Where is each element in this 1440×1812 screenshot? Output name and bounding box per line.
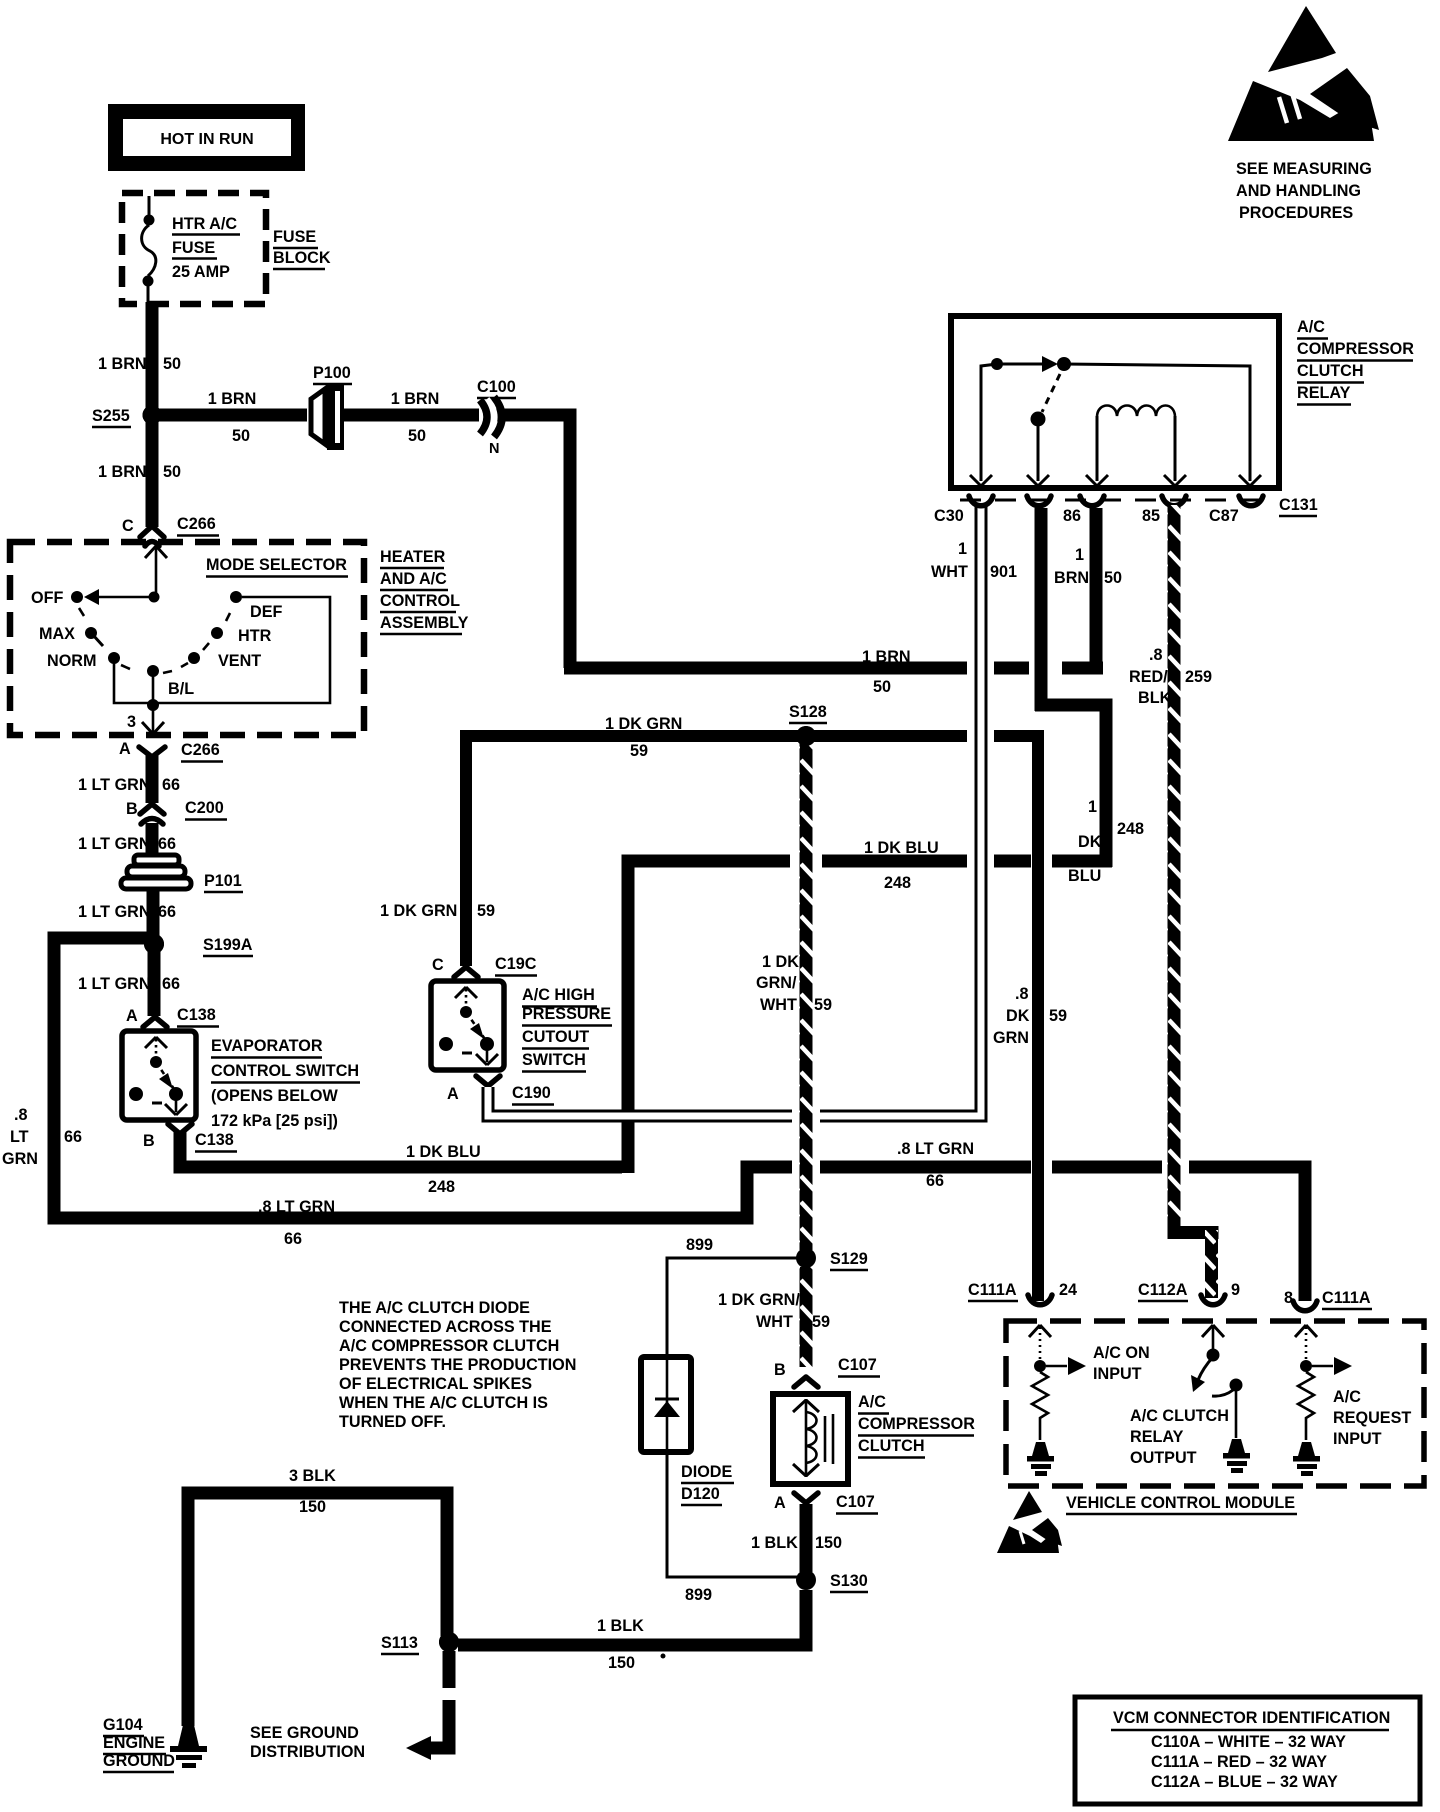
svg-text:150: 150 [608, 1654, 635, 1672]
svg-text:1 LT GRN: 1 LT GRN [78, 835, 151, 853]
svg-text:BRN: BRN [1054, 569, 1089, 587]
svg-text:59: 59 [630, 742, 648, 760]
wire S255 to C266, 1 BRN 50 [98, 415, 181, 527]
svg-text:899: 899 [685, 1586, 712, 1604]
svg-text:HTR: HTR [238, 627, 272, 645]
svg-text:B: B [774, 1361, 786, 1379]
svg-text:BLK: BLK [1138, 689, 1172, 707]
mode contact HTR [211, 627, 272, 645]
mode contact NORM [47, 652, 120, 670]
svg-text:1 BRN: 1 BRN [862, 648, 911, 666]
connector C138 pin A [126, 1006, 219, 1027]
clutch coil internals [793, 1399, 833, 1477]
svg-text:.8 LT GRN: .8 LT GRN [897, 1140, 974, 1158]
svg-text:EVAPORATOR: EVAPORATOR [211, 1037, 323, 1055]
svg-text:COMPRESSOR: COMPRESSOR [858, 1415, 975, 1433]
A/C high pressure cutout switch feed wire 1 DK GRN 59 [380, 715, 1038, 966]
svg-text:1 DK GRN: 1 DK GRN [380, 902, 457, 920]
svg-text:C: C [432, 956, 444, 974]
svg-text:50: 50 [873, 678, 891, 696]
svg-text:899: 899 [686, 1236, 713, 1254]
svg-text:C112A – BLUE – 32 WAY: C112A – BLUE – 32 WAY [1151, 1773, 1338, 1791]
wire S130 to S113, 1 BLK 150 [458, 1590, 806, 1672]
svg-text:901: 901 [990, 563, 1017, 581]
relay pin C87 [1209, 496, 1263, 525]
svg-text:66: 66 [284, 1230, 302, 1248]
svg-text:INPUT: INPUT [1093, 1365, 1142, 1383]
connector C131 dashed row [960, 496, 1318, 516]
svg-text:HOT IN RUN: HOT IN RUN [160, 131, 253, 148]
svg-text:OFF: OFF [31, 589, 63, 607]
svg-text:MODE SELECTOR: MODE SELECTOR [206, 556, 347, 574]
svg-text:B: B [126, 800, 138, 818]
wire relay 86 to BRN feed, 1 BRN 50 [1054, 508, 1122, 674]
power source label HOT IN RUN [108, 104, 305, 171]
grommet P101 [121, 855, 243, 892]
svg-text:3 BLK: 3 BLK [289, 1467, 336, 1485]
svg-text:AND HANDLING: AND HANDLING [1236, 182, 1361, 200]
svg-text:DK: DK [1078, 833, 1102, 851]
svg-text:SWITCH: SWITCH [522, 1051, 586, 1069]
wire 1 WHT 901 (hollow white wire) pressure switch A to relay C30 [488, 506, 1017, 1116]
svg-text:RED/: RED/ [1129, 668, 1168, 686]
svg-text:.8: .8 [1149, 646, 1163, 664]
svg-text:59: 59 [812, 1313, 830, 1331]
svg-text:150: 150 [815, 1534, 842, 1552]
svg-text:DEF: DEF [250, 603, 282, 621]
svg-text:1 LT GRN: 1 LT GRN [78, 975, 151, 993]
svg-text:59: 59 [1049, 1007, 1067, 1025]
evaporator switch internals [129, 1037, 187, 1115]
svg-text:24: 24 [1059, 1281, 1077, 1299]
svg-text:1: 1 [1075, 546, 1084, 564]
wire C100 to 1 BRN 50 horizontal run (to relay column) [496, 415, 1103, 696]
svg-text:1 BRN: 1 BRN [391, 390, 440, 408]
svg-text:C138: C138 [195, 1131, 234, 1149]
svg-text:CONTROL: CONTROL [380, 592, 460, 610]
relay armature link (dashed) and pin 30 lead [1027, 374, 1060, 486]
splice S128 dot [796, 726, 816, 746]
svg-text:ENGINE: ENGINE [103, 1734, 165, 1752]
svg-text:1 LT GRN: 1 LT GRN [78, 903, 151, 921]
svg-text:1: 1 [958, 540, 967, 558]
fuse block dashed box [122, 193, 266, 304]
svg-text:AND A/C: AND A/C [380, 570, 447, 588]
svg-text:3: 3 [127, 713, 136, 731]
svg-text:66: 66 [158, 835, 176, 853]
VCM A/C ON INPUT circuit [1027, 1325, 1150, 1476]
svg-text:1 BLK: 1 BLK [751, 1534, 798, 1552]
svg-text:WHT: WHT [931, 563, 968, 581]
relay switch arm and second contact to pin C87 [997, 356, 1261, 486]
svg-text:TURNED OFF.: TURNED OFF. [339, 1413, 446, 1431]
ESD warning text [1236, 160, 1372, 222]
svg-text:DK: DK [1006, 1007, 1030, 1025]
svg-text:1: 1 [1088, 798, 1097, 816]
svg-text:1 DK BLU: 1 DK BLU [864, 839, 939, 857]
connector C200 pin B [126, 799, 227, 824]
svg-text:59: 59 [477, 902, 495, 920]
relay pin 86 [1063, 496, 1104, 525]
svg-text:N: N [489, 441, 499, 457]
svg-text:.8 LT GRN: .8 LT GRN [258, 1198, 335, 1216]
svg-text:GRN/: GRN/ [756, 974, 797, 992]
svg-text:C111A: C111A [968, 1281, 1017, 1299]
svg-text:66: 66 [926, 1172, 944, 1190]
svg-text:C110A – WHITE – 32 WAY: C110A – WHITE – 32 WAY [1151, 1733, 1346, 1751]
wire relay 85 hatched .8 RED/BLK 259 to VCM pin 9 [1129, 505, 1219, 1298]
svg-text:.8: .8 [1015, 985, 1029, 1003]
connector C111A pin 8 [1284, 1289, 1372, 1311]
svg-text:1 DK BLU: 1 DK BLU [406, 1143, 481, 1161]
svg-text:1 DK: 1 DK [762, 953, 799, 971]
connector C266 pin A [119, 740, 223, 762]
svg-text:1 DK GRN: 1 DK GRN [605, 715, 682, 733]
svg-text:PRESSURE: PRESSURE [522, 1005, 611, 1023]
svg-text:MAX: MAX [39, 625, 75, 643]
heater and A/C control assembly dashed box (mode selector) [10, 542, 364, 735]
svg-text:C19C: C19C [495, 955, 537, 973]
wire .8 DK GRN 59 down to VCM pin 24 [993, 730, 1067, 1301]
svg-text:50: 50 [163, 463, 181, 481]
svg-text:50: 50 [232, 427, 250, 445]
mode contact OFF [31, 589, 83, 607]
svg-text:50: 50 [1104, 569, 1122, 587]
wire B C138 to relay, 1 DK BLU 248 [180, 508, 1144, 1196]
svg-text:C107: C107 [838, 1356, 877, 1374]
connector C266 pin C [122, 515, 219, 546]
svg-text:A: A [774, 1494, 786, 1512]
splice S113 [381, 1632, 459, 1654]
svg-text:D120: D120 [681, 1485, 720, 1503]
svg-text:C111A: C111A [1322, 1289, 1371, 1307]
splice S199A dot [144, 934, 164, 954]
svg-text:86: 86 [1063, 507, 1081, 525]
svg-text:25 AMP: 25 AMP [172, 263, 230, 281]
small ESD warning symbol [997, 1491, 1062, 1553]
evaporator control switch box [122, 1031, 360, 1130]
splice S255 [92, 406, 162, 428]
svg-text:P101: P101 [204, 872, 242, 890]
svg-text:C190: C190 [512, 1084, 551, 1102]
svg-text:248: 248 [1117, 820, 1144, 838]
svg-text:9: 9 [1231, 1281, 1240, 1299]
svg-text:SEE MEASURING: SEE MEASURING [1236, 160, 1372, 178]
svg-text:85: 85 [1142, 507, 1160, 525]
svg-text:S129: S129 [830, 1250, 868, 1268]
connector C111A pin 24 [968, 1281, 1077, 1305]
svg-text:DISTRIBUTION: DISTRIBUTION [250, 1743, 365, 1761]
svg-text:CUTOUT: CUTOUT [522, 1028, 589, 1046]
svg-text:C111A – RED – 32 WAY: C111A – RED – 32 WAY [1151, 1753, 1327, 1771]
wire S128 to S129 hatched 1 DK GRN/WHT 59 [756, 742, 832, 1250]
wire S129 to B C107 hatched 1 DK GRN/WHT 59 [718, 1267, 830, 1367]
fuse block label [273, 228, 331, 269]
svg-text:SEE GROUND: SEE GROUND [250, 1724, 359, 1742]
A/C compressor clutch box [773, 1393, 975, 1484]
svg-text:G104: G104 [103, 1716, 143, 1734]
mode contact MAX [39, 625, 103, 646]
svg-text:172 kPa [25 psi]): 172 kPa [25 psi]) [211, 1112, 338, 1130]
svg-text:C138: C138 [177, 1006, 216, 1024]
splice S128 [789, 703, 827, 746]
svg-text:P100: P100 [313, 364, 351, 382]
relay pin 85 [1142, 496, 1186, 525]
svg-text:A/C: A/C [1333, 1388, 1361, 1406]
svg-text:LT: LT [10, 1128, 29, 1146]
A/C compressor clutch relay box [951, 316, 1414, 488]
svg-text:WHEN THE A/C CLUTCH IS: WHEN THE A/C CLUTCH IS [339, 1394, 548, 1412]
connector C112A pin 9 [1138, 1281, 1240, 1305]
mode contact VENT [188, 652, 261, 670]
mode selector switch wiper input arrow [84, 546, 167, 605]
svg-text:A/C COMPRESSOR CLUTCH: A/C COMPRESSOR CLUTCH [339, 1337, 559, 1355]
svg-text:PREVENTS THE PRODUCTION: PREVENTS THE PRODUCTION [339, 1356, 576, 1374]
svg-text:BLU: BLU [1068, 867, 1101, 885]
svg-text:VENT: VENT [218, 652, 261, 670]
connector C190 pin A [447, 1076, 554, 1105]
svg-text:CLUTCH: CLUTCH [858, 1437, 925, 1455]
svg-text:B/L: B/L [168, 680, 194, 698]
splice S113 dot [439, 1632, 459, 1652]
svg-text:WHT: WHT [756, 1313, 793, 1331]
svg-text:C200: C200 [185, 799, 224, 817]
splice S199A [144, 934, 253, 956]
svg-text:A/C: A/C [858, 1393, 886, 1411]
svg-text:A: A [447, 1085, 459, 1103]
vehicle control module dashed box [1006, 1321, 1424, 1514]
svg-text:S130: S130 [830, 1572, 868, 1590]
wire S113 off-page stub to ground distribution [250, 1651, 449, 1761]
svg-text:A/C HIGH: A/C HIGH [522, 986, 595, 1004]
svg-text:S199A: S199A [203, 936, 253, 954]
svg-text:S113: S113 [381, 1634, 418, 1652]
wire NORM to output bus [114, 597, 330, 703]
svg-text:CONTROL SWITCH: CONTROL SWITCH [211, 1062, 359, 1080]
svg-text:A/C CLUTCH: A/C CLUTCH [1130, 1407, 1229, 1425]
connector C138 pin B [143, 1124, 237, 1152]
svg-text:A: A [119, 740, 131, 758]
assembly name label [380, 548, 469, 634]
svg-text:C100: C100 [477, 378, 516, 396]
wire S255 to P100, 1 BRN 50 [152, 390, 307, 445]
svg-text:C266: C266 [177, 515, 216, 533]
svg-text:C266: C266 [181, 741, 220, 759]
relay pin C30 [934, 496, 993, 525]
relay pin 30 (armature) [1027, 496, 1051, 506]
svg-text:RELAY: RELAY [1130, 1428, 1184, 1446]
svg-text:.8: .8 [14, 1106, 28, 1124]
svg-text:248: 248 [428, 1178, 455, 1196]
relay coil [1086, 406, 1186, 487]
svg-text:GRN: GRN [2, 1150, 38, 1168]
A/C clutch diode note text [339, 1299, 576, 1431]
wire B/L to output junction [147, 671, 159, 711]
svg-text:REQUEST: REQUEST [1333, 1409, 1411, 1427]
svg-text:FUSE: FUSE [273, 228, 316, 246]
svg-text:1 DK GRN/: 1 DK GRN/ [718, 1291, 800, 1309]
mode selector output pin 3 arrow [127, 705, 164, 734]
svg-text:S128: S128 [789, 703, 827, 721]
wire A C266 to B C200, 1 LT GRN 66 [78, 755, 180, 803]
svg-text:1 LT GRN: 1 LT GRN [78, 776, 151, 794]
svg-text:GRN: GRN [993, 1029, 1029, 1047]
splice S129 [796, 1248, 868, 1270]
wire P101 to S199A, 1 LT GRN 66 [78, 890, 176, 944]
wire fuse to S255, 1 BRN 50 [98, 302, 181, 416]
svg-text:CONNECTED ACROSS THE: CONNECTED ACROSS THE [339, 1318, 552, 1336]
svg-text:GROUND: GROUND [103, 1752, 175, 1770]
relay switch fixed contact to pin C30 [970, 358, 1003, 486]
svg-text:ASSEMBLY: ASSEMBLY [380, 614, 469, 632]
connector P100 [311, 364, 352, 450]
svg-text:(OPENS BELOW: (OPENS BELOW [211, 1087, 339, 1105]
svg-text:C131: C131 [1279, 496, 1318, 514]
svg-text:NORM: NORM [47, 652, 96, 670]
wire A C107 to S130, 1 BLK 150 [751, 1504, 842, 1572]
svg-text:66: 66 [162, 776, 180, 794]
wire S113 to G104, 3 BLK 150 [188, 1467, 447, 1726]
svg-text:66: 66 [158, 903, 176, 921]
svg-text:PROCEDURES: PROCEDURES [1239, 204, 1353, 222]
wire .8 LT GRN 66 run to VCM pin 8 [820, 1140, 1305, 1301]
wire P100 to C100, 1 BRN 50 [344, 390, 479, 445]
connector C190 pin C [432, 955, 537, 977]
connector C107 pin B [774, 1356, 880, 1387]
svg-text:1 BRN: 1 BRN [98, 463, 147, 481]
svg-text:66: 66 [162, 975, 180, 993]
A/C high pressure cutout switch box [431, 981, 612, 1072]
svg-text:RELAY: RELAY [1297, 384, 1351, 402]
diode D120 branch wire 899 (top) [667, 1236, 797, 1357]
svg-text:150: 150 [299, 1498, 326, 1516]
svg-text:FUSE: FUSE [172, 239, 215, 257]
mode contact B/L [147, 665, 194, 698]
wire C200 to P101, 1 LT GRN 66 [78, 823, 176, 855]
svg-text:C107: C107 [836, 1493, 875, 1511]
svg-text:1 BRN: 1 BRN [98, 355, 147, 373]
svg-text:50: 50 [408, 427, 426, 445]
svg-text:A/C ON: A/C ON [1093, 1344, 1150, 1362]
svg-text:HTR A/C: HTR A/C [172, 215, 237, 233]
svg-text:HEATER: HEATER [380, 548, 446, 566]
splice S255 dot [143, 406, 162, 425]
svg-text:1 BLK: 1 BLK [597, 1617, 644, 1635]
ground G104 [103, 1716, 207, 1772]
wire S199A branch left and down, .8 LT GRN 66 [2, 938, 792, 1248]
svg-text:THE A/C CLUTCH DIODE: THE A/C CLUTCH DIODE [339, 1299, 530, 1317]
mode contact DEF [230, 591, 282, 621]
svg-text:1 BRN: 1 BRN [208, 390, 257, 408]
svg-text:OF ELECTRICAL SPIKES: OF ELECTRICAL SPIKES [339, 1375, 532, 1393]
svg-text:CLUTCH: CLUTCH [1297, 362, 1364, 380]
svg-text:50: 50 [163, 355, 181, 373]
pressure switch internals [439, 987, 498, 1065]
svg-text:C87: C87 [1209, 507, 1239, 525]
svg-text:A: A [126, 1007, 138, 1025]
svg-text:S255: S255 [92, 407, 130, 425]
diode D120 [641, 1357, 734, 1505]
svg-text:VEHICLE CONTROL MODULE: VEHICLE CONTROL MODULE [1066, 1494, 1295, 1512]
svg-text:259: 259 [1185, 668, 1212, 686]
VCM A/C REQUEST INPUT circuit [1293, 1325, 1411, 1476]
svg-text:A/C: A/C [1297, 318, 1325, 336]
connector C100, N [477, 378, 516, 457]
VCM A/C CLUTCH RELAY OUTPUT circuit [1130, 1325, 1250, 1473]
svg-text:OUTPUT: OUTPUT [1130, 1449, 1197, 1467]
svg-text:WHT: WHT [760, 996, 797, 1014]
svg-text:DIODE: DIODE [681, 1463, 732, 1481]
splice S130 [796, 1570, 868, 1592]
diode D120 branch wire 899 (bottom) [667, 1452, 797, 1604]
connector C107 pin A [774, 1493, 878, 1514]
svg-text:66: 66 [64, 1128, 82, 1146]
svg-text:COMPRESSOR: COMPRESSOR [1297, 340, 1414, 358]
rotary wiper dashed arc [79, 608, 230, 673]
svg-text:C112A: C112A [1138, 1281, 1188, 1299]
fuse F HTR A/C 25 AMP [142, 196, 240, 302]
svg-text:C: C [122, 517, 134, 535]
wire S199A to A C138, 1 LT GRN 66 [78, 944, 180, 1016]
svg-text:BLOCK: BLOCK [273, 249, 331, 267]
ESD handling warning symbol [1228, 6, 1379, 141]
svg-text:INPUT: INPUT [1333, 1430, 1382, 1448]
VCM connector identification table [1075, 1697, 1420, 1804]
svg-text:59: 59 [814, 996, 832, 1014]
svg-text:VCM CONNECTOR IDENTIFICATION: VCM CONNECTOR IDENTIFICATION [1113, 1709, 1390, 1727]
svg-text:C30: C30 [934, 507, 964, 525]
svg-text:B: B [143, 1132, 155, 1150]
svg-text:248: 248 [884, 874, 911, 892]
